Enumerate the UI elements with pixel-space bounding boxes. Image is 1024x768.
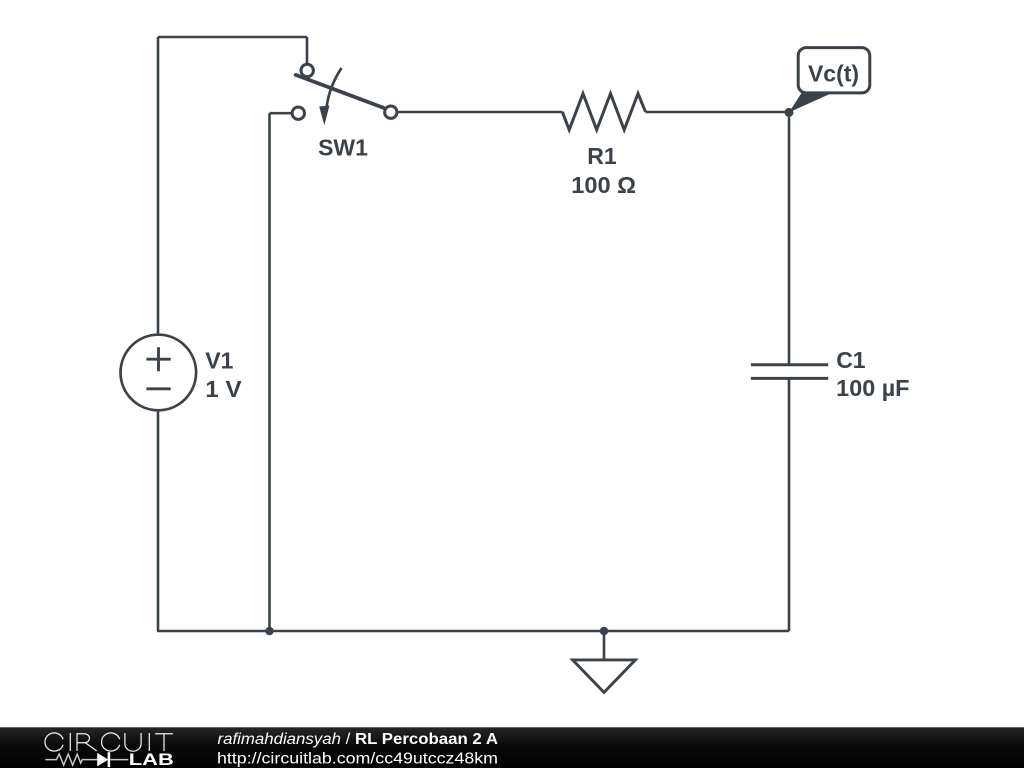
- svg-text:Vc(t): Vc(t): [808, 61, 859, 87]
- node Vc(t) flag: [789, 48, 870, 113]
- wire switch bottom branch horizontal: [270, 112, 292, 115]
- wire switch to resistor: [399, 111, 563, 114]
- wire top horizontal: [158, 36, 307, 39]
- wire bottom horizontal: [157, 630, 789, 633]
- svg-text:100 µF: 100 µF: [836, 375, 909, 401]
- svg-text:R1: R1: [587, 143, 617, 169]
- svg-text:V1: V1: [205, 347, 233, 373]
- svg-text:LAB: LAB: [129, 751, 174, 768]
- switch SW1: [292, 64, 397, 160]
- wire switch top stub: [306, 37, 309, 63]
- wire switch bottom branch vertical: [268, 113, 271, 631]
- junction dot ground: [600, 627, 609, 636]
- svg-text:1 V: 1 V: [205, 376, 242, 402]
- logo CIRCUIT letters: [45, 733, 173, 751]
- ground: [573, 660, 636, 693]
- node dot at Vc(t): [785, 108, 794, 117]
- svg-text:100 Ω: 100 Ω: [571, 172, 636, 198]
- wire resistor to node: [646, 111, 790, 114]
- voltage source V1: [121, 335, 243, 411]
- wire left vertical lower: [157, 410, 160, 631]
- wire capacitor to bottom: [788, 378, 791, 631]
- svg-text:rafimahdiansyah / RL Percobaan: rafimahdiansyah / RL Percobaan 2 A: [218, 731, 499, 748]
- resistor R1: [562, 94, 645, 198]
- svg-text:SW1: SW1: [318, 135, 368, 161]
- wire node to capacitor: [788, 112, 791, 365]
- capacitor C1: [751, 347, 910, 401]
- junction dot left: [265, 627, 274, 636]
- wire ground stub: [603, 631, 606, 660]
- svg-text:C1: C1: [836, 347, 866, 373]
- logo resistor-diode mark: [45, 752, 128, 767]
- svg-text:http://circuitlab.com/cc49utcc: http://circuitlab.com/cc49utccz48km: [217, 751, 498, 768]
- wire left vertical upper: [157, 37, 160, 335]
